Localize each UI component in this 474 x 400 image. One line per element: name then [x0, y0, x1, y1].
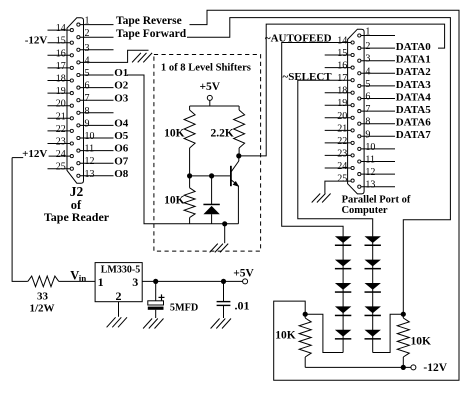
svg-text:9: 9	[85, 118, 90, 129]
svg-text:2.2K: 2.2K	[210, 127, 233, 139]
svg-text:5: 5	[365, 79, 370, 90]
svg-text:O6: O6	[114, 143, 129, 155]
svg-text:O3: O3	[114, 92, 129, 104]
terminal +5V output	[233, 268, 254, 284]
svg-text:-12V: -12V	[25, 34, 48, 46]
svg-text:Tape Reverse: Tape Reverse	[116, 15, 182, 27]
svg-text:10K: 10K	[164, 127, 185, 139]
label +12V	[22, 148, 47, 160]
diode DL1	[335, 236, 351, 246]
svg-text:Parallel Port of: Parallel Port of	[342, 195, 411, 206]
svg-text:18: 18	[337, 86, 347, 97]
ground (5MFD)	[143, 319, 163, 329]
terminal +5V (level shifter)	[199, 81, 220, 106]
svg-text:9: 9	[365, 129, 370, 140]
svg-text:11: 11	[365, 155, 375, 166]
node emitter/diode bottom junction	[222, 221, 227, 226]
svg-text:23: 23	[337, 148, 347, 159]
label ~SELECT	[283, 71, 333, 83]
label Tape Forward	[116, 28, 187, 40]
wire +5V output rail	[142, 280, 242, 282]
svg-text:4: 4	[85, 55, 90, 66]
svg-text:10K: 10K	[275, 330, 296, 342]
svg-text:~SELECT: ~SELECT	[283, 71, 333, 83]
label 1 of 8 Level Shifters	[161, 63, 251, 74]
svg-text:4: 4	[365, 66, 370, 77]
label J2	[70, 184, 84, 199]
ground (.01)	[211, 319, 231, 329]
node base-10K junction	[187, 173, 192, 178]
label Tape Reader	[44, 210, 110, 224]
svg-text:16: 16	[56, 48, 66, 59]
svg-text:10K: 10K	[411, 336, 432, 348]
svg-text:14: 14	[337, 36, 347, 47]
svg-text:24: 24	[337, 161, 347, 172]
svg-text:14: 14	[56, 23, 66, 34]
parallel port pins 14-25 with stub wires	[325, 36, 355, 185]
wire resistor to regulator	[59, 280, 95, 282]
svg-text:33: 33	[37, 290, 49, 302]
right diode string wire	[372, 236, 374, 352]
svg-text:Computer: Computer	[341, 205, 387, 216]
svg-text:17: 17	[337, 73, 347, 84]
svg-text:2: 2	[116, 289, 122, 303]
ground (regulator pin 2)	[107, 317, 127, 327]
svg-text:in: in	[79, 273, 87, 283]
svg-text:6: 6	[365, 92, 370, 103]
svg-text:17: 17	[56, 61, 66, 72]
svg-text:13: 13	[365, 180, 375, 191]
label -12V	[25, 34, 48, 46]
wire Tape Reverse net: J2 pin1 around right side to left diode column bottom	[190, 10, 460, 380]
diode DR1	[365, 236, 381, 246]
diode DL2	[335, 260, 351, 270]
svg-text:1/2W: 1/2W	[29, 303, 54, 315]
svg-text:DATA1: DATA1	[396, 54, 431, 66]
svg-text:.01: .01	[235, 298, 250, 312]
diode DR4	[365, 306, 381, 316]
svg-text:23: 23	[56, 137, 66, 148]
label Tape Reverse	[116, 15, 182, 27]
wire parallel port pin 25 to ground	[325, 181, 351, 193]
resistor 2.2K	[210, 106, 244, 156]
svg-text:19: 19	[337, 98, 347, 109]
wire O1 to level shifter input	[127, 75, 238, 224]
svg-text:12: 12	[85, 156, 95, 167]
resistor 10K (upper, level shifter)	[164, 106, 195, 176]
svg-text:10K: 10K	[164, 194, 185, 206]
wire right diode bottom jog to 10K top	[373, 314, 404, 352]
svg-text:2: 2	[85, 28, 90, 39]
svg-text:LM330-5: LM330-5	[101, 264, 140, 275]
J2 pins 14-25 with stub wires	[48, 23, 74, 173]
node left 10K top junction	[303, 312, 308, 317]
svg-text:O7: O7	[114, 155, 129, 167]
svg-text:O8: O8	[114, 168, 129, 180]
node right 10K top junction	[401, 312, 406, 317]
svg-text:19: 19	[56, 86, 66, 97]
wire left diode bottom jog to 10K top	[305, 314, 343, 352]
svg-text:25: 25	[56, 162, 66, 173]
wire +5V rail	[190, 105, 240, 107]
svg-text:7: 7	[365, 104, 370, 115]
resistor 10K (bottom right)	[397, 314, 431, 367]
svg-text:O2: O2	[114, 80, 129, 92]
svg-text:25: 25	[337, 174, 347, 185]
svg-text:O5: O5	[114, 130, 129, 142]
wire ~AUTOFEED to left diode string	[282, 43, 351, 237]
svg-text:2: 2	[365, 41, 370, 52]
svg-text:13: 13	[85, 169, 95, 180]
J2 pins 1-13 with stub wires	[77, 16, 149, 180]
node -12V junction	[401, 365, 406, 370]
label of	[71, 198, 82, 212]
diode DL4	[335, 306, 351, 316]
svg-text:3: 3	[132, 275, 138, 289]
svg-text:22: 22	[56, 124, 66, 135]
capacitor 5MFD	[148, 281, 198, 318]
svg-text:Tape Reader: Tape Reader	[44, 210, 110, 224]
node diode-base junction	[209, 173, 214, 178]
wire Tape Forward net: J2 pin2 to right diode column bottom	[187, 18, 450, 315]
svg-text:Tape Forward: Tape Forward	[116, 28, 187, 40]
svg-text:22: 22	[337, 136, 347, 147]
capacitor .01	[217, 281, 250, 318]
svg-text:-12V: -12V	[423, 362, 447, 374]
svg-text:DATA6: DATA6	[396, 117, 432, 129]
labels DATA0-DATA7	[396, 41, 432, 141]
svg-text:O4: O4	[114, 118, 129, 130]
svg-text:21: 21	[337, 123, 347, 134]
svg-text:16: 16	[337, 61, 347, 72]
label ~AUTOFEED	[265, 32, 332, 44]
svg-text:5MFD: 5MFD	[170, 303, 198, 314]
svg-text:J2: J2	[70, 184, 84, 199]
svg-text:6: 6	[85, 81, 90, 92]
svg-text:10: 10	[85, 131, 95, 142]
wire base node	[190, 175, 231, 177]
svg-text:15: 15	[56, 36, 66, 47]
svg-text:1 of 8 Level Shifters: 1 of 8 Level Shifters	[161, 63, 251, 74]
svg-text:15: 15	[337, 48, 347, 59]
wire ~SELECT to right diode string	[298, 80, 373, 236]
svg-text:3: 3	[85, 43, 90, 54]
diode DR2	[365, 260, 381, 270]
diode DR5	[365, 330, 381, 340]
svg-text:1: 1	[98, 275, 104, 289]
node collector junction	[236, 153, 241, 158]
diode DL3	[335, 283, 351, 293]
ground at J2 pin 4	[132, 53, 152, 63]
svg-text:8: 8	[85, 106, 90, 117]
svg-text:O1: O1	[114, 67, 128, 79]
svg-text:DATA2: DATA2	[396, 66, 432, 78]
diode DL5	[335, 330, 351, 340]
svg-text:20: 20	[56, 99, 66, 110]
diode D1 (clamp, level shifter)	[203, 176, 219, 224]
svg-text:1: 1	[365, 27, 370, 38]
svg-text:DATA4: DATA4	[396, 91, 432, 103]
resistor 33 1/2W	[28, 276, 59, 314]
svg-text:+5V: +5V	[233, 268, 254, 280]
node 5MFD junction	[153, 279, 158, 284]
svg-text:DATA3: DATA3	[396, 79, 432, 91]
label Parallel Port of	[342, 195, 411, 206]
wire +12V feed down to regulator input	[12, 158, 28, 282]
transistor Q1	[231, 156, 239, 224]
node .01 junction	[221, 279, 226, 284]
svg-text:18: 18	[56, 74, 66, 85]
wire -12V rail	[305, 366, 411, 368]
svg-text:DATA5: DATA5	[396, 104, 432, 116]
resistor 10K (bottom left)	[275, 314, 311, 367]
connector J2 body	[67, 18, 84, 183]
terminal -12V	[411, 362, 448, 374]
label Vin	[70, 269, 86, 284]
parallel port pins 1-13 with stub wires	[358, 27, 395, 191]
diode DR3	[365, 283, 381, 293]
ground (parallel port pin 25)	[312, 194, 331, 203]
ground (level shifter)	[210, 224, 229, 253]
svg-text:DATA7: DATA7	[396, 129, 432, 141]
left diode string wire	[342, 236, 344, 352]
svg-text:11: 11	[85, 144, 95, 155]
svg-text:+5V: +5V	[199, 81, 220, 93]
resistor 10K (lower, level shifter)	[164, 176, 195, 224]
connector parallel port body	[348, 29, 365, 194]
label Computer	[341, 205, 387, 216]
svg-text:DATA0: DATA0	[396, 41, 432, 53]
svg-text:21: 21	[56, 111, 66, 122]
wire regulator pin 2 to ground	[118, 302, 120, 317]
regulator U1 LM330-5	[95, 263, 142, 303]
svg-text:1: 1	[85, 16, 90, 27]
svg-text:20: 20	[337, 111, 347, 122]
svg-text:12: 12	[365, 167, 375, 178]
dashed box: 1 of 8 Level Shifters	[154, 55, 261, 252]
svg-text:3: 3	[365, 54, 370, 65]
labels O1-O8	[114, 67, 129, 180]
svg-text:10: 10	[365, 142, 375, 153]
svg-text:24: 24	[56, 149, 66, 160]
svg-text:+12V: +12V	[22, 148, 47, 160]
svg-text:5: 5	[85, 68, 90, 79]
svg-text:7: 7	[85, 93, 90, 104]
wire level shifter output (collector) to DATA0	[239, 24, 445, 156]
svg-text:8: 8	[365, 117, 370, 128]
